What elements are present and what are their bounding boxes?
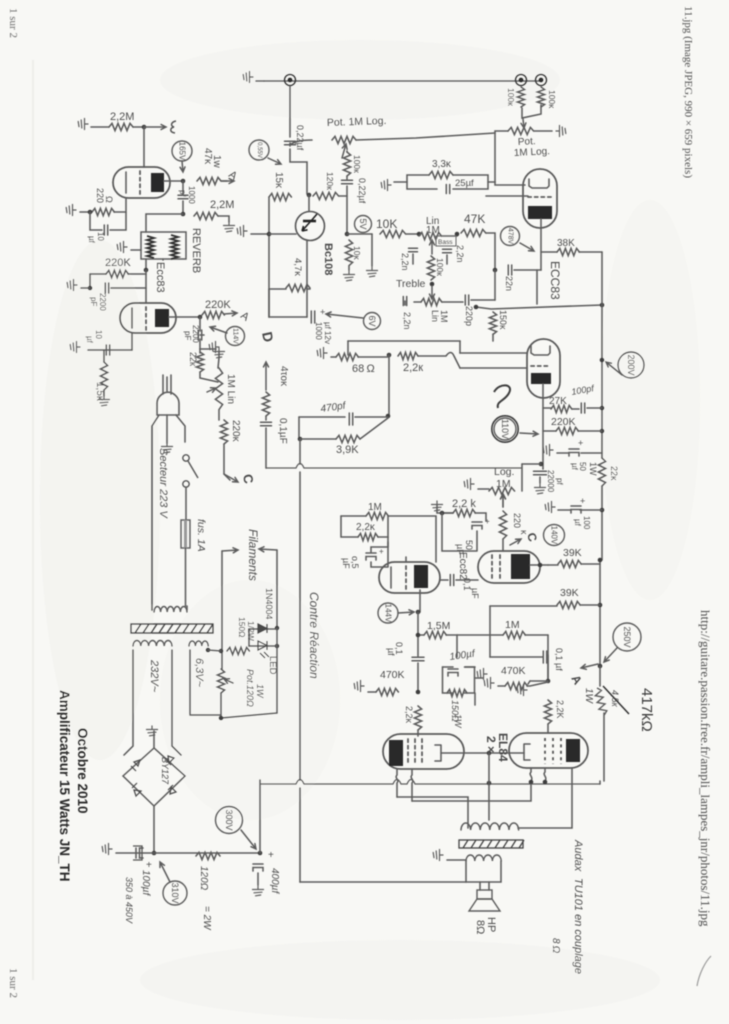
svg-text:140V: 140V — [550, 526, 559, 545]
capacitor 22n coupling — [508, 265, 511, 275]
fuse inner line — [184, 520, 187, 548]
wire gnd 2200 — [81, 287, 90, 289]
wire join to pot — [522, 105, 541, 118]
wire y468 to pot — [521, 464, 523, 491]
svg-text:300V: 300V — [224, 809, 234, 830]
tube V2b envelope — [527, 339, 560, 398]
resistor 68 ohm — [336, 353, 358, 360]
node mid coupler — [493, 268, 498, 273]
svg-text:2,2κ: 2,2κ — [404, 706, 414, 724]
wire plug earth lead — [166, 415, 168, 443]
ground 2,2k cath — [432, 501, 443, 511]
svg-text:114V: 114V — [232, 328, 239, 344]
arrow 144V — [398, 610, 414, 615]
svg-text:220K: 220K — [205, 299, 231, 311]
svg-text:100κ: 100κ — [547, 90, 557, 109]
wire V1b plate cap branch — [199, 317, 201, 331]
svg-text:Secteur 223 V: Secteur 223 V — [157, 448, 169, 519]
tube V2b grid dashes — [531, 365, 549, 367]
resistor 4,7K emitter — [286, 284, 310, 291]
arrow filament right — [259, 547, 277, 552]
svg-text:Octobre 2010: Octobre 2010 — [75, 728, 90, 814]
wiper arrow 1M Lin — [207, 388, 216, 393]
wire 3,9K ends — [300, 418, 388, 439]
input jack J3 — [536, 75, 547, 86]
wire filter rail — [116, 852, 260, 854]
wire 417k ends — [600, 666, 604, 781]
label box Bass — [436, 236, 456, 246]
wire 220K left branch — [89, 274, 91, 288]
svg-text:2200: 2200 — [98, 293, 107, 311]
svg-text:2,2к: 2,2к — [403, 362, 423, 374]
wire y341 bus — [348, 340, 460, 342]
svg-text:µF: µF — [455, 544, 465, 555]
ground mains earth — [162, 443, 173, 453]
tube V4 anode box — [511, 554, 530, 579]
wire el84 cath box top — [443, 666, 475, 668]
wire gnd 220 — [80, 211, 88, 213]
wire 470K out2 row — [528, 681, 530, 684]
ground filter cap1 — [102, 844, 112, 855]
svg-text:Pot. 1M Log.: Pot. 1M Log. — [327, 115, 387, 129]
ground 2,2M — [78, 119, 88, 130]
tube V4 ECC82 right envelope — [478, 551, 540, 583]
wire ground to rail — [251, 233, 269, 235]
wire emitter down — [306, 240, 308, 317]
resistor 470K out2 — [505, 682, 527, 689]
wire 47K right corner — [486, 233, 495, 270]
svg-text:1M Lin: 1M Lin — [225, 374, 236, 404]
tube V3 grid dashes — [405, 566, 407, 590]
ground reverb box — [117, 242, 127, 253]
resistor 39K top — [558, 560, 581, 567]
tube V2a cathode box — [528, 206, 552, 219]
arrow output A second — [224, 311, 237, 316]
wire bass pot right — [441, 235, 457, 237]
svg-text:350 à 450V: 350 à 450V — [124, 877, 134, 924]
capacitor 2200pF left — [105, 283, 108, 293]
wire 2,2n right stub — [446, 255, 448, 264]
wire 3k3 block outline — [407, 175, 488, 189]
squiggle doodle — [494, 385, 510, 408]
tube V2a plate electrode — [529, 179, 549, 188]
reverb coil right — [171, 235, 178, 259]
wire 50uF to gnd — [557, 452, 569, 454]
svg-text:417kΩ: 417kΩ — [638, 688, 655, 732]
output transformer primary winding — [461, 823, 519, 830]
ground 2200pF — [67, 280, 77, 291]
capacitor 1000uF 12V — [311, 311, 314, 323]
wire diode row — [249, 628, 277, 630]
node 150K top wire — [474, 305, 479, 310]
master wiper arrow — [501, 494, 506, 507]
resistor 220 ohm cathode — [92, 208, 114, 215]
mains plug pin earth — [166, 377, 168, 391]
svg-text:0,22µf: 0,22µf — [295, 125, 305, 151]
arrow output A first — [222, 179, 234, 184]
svg-text:2 ×: 2 × — [484, 736, 498, 753]
top ground bus wire — [264, 80, 541, 82]
svg-text:Ω: Ω — [104, 196, 114, 203]
resistor 10K horizontal — [380, 230, 406, 237]
capacitor 1000pF reverb — [178, 195, 188, 198]
ground speaker — [433, 850, 443, 861]
wire 220 ends — [88, 211, 126, 213]
capacitor 100uF el84 — [448, 669, 458, 676]
resistor 3,3k — [429, 171, 453, 178]
treble wiper arrow — [430, 286, 435, 299]
svg-text:1M: 1M — [439, 310, 449, 323]
svg-text:220: 220 — [95, 188, 105, 203]
wire pot left down — [495, 131, 508, 182]
wire 27K to cap — [543, 408, 579, 409]
wire master gnd stub — [478, 488, 489, 490]
svg-text:Treble: Treble — [396, 278, 426, 290]
wire sec left long — [300, 881, 466, 883]
arrow 478V — [520, 243, 534, 251]
potentiometer 120 ohm hum — [217, 669, 224, 693]
wire 68 to 2,2k — [358, 355, 389, 357]
node hum bottom — [219, 716, 224, 721]
svg-text:144V: 144V — [384, 604, 393, 623]
wire 2,2k gnd stub — [437, 505, 453, 513]
resistor 220K master — [499, 511, 506, 539]
node 470K out1 — [416, 690, 421, 695]
svg-text:1W: 1W — [583, 688, 594, 705]
transformer HT secondary winding — [133, 640, 172, 646]
node E junction — [142, 125, 147, 130]
wire pot right to ground — [534, 130, 552, 132]
tube V1a grid dashes — [139, 171, 141, 194]
node reverb drive — [181, 212, 186, 217]
wire gnd to block — [394, 181, 407, 183]
resistor 47K 1W — [197, 177, 221, 184]
wire g1 left to tube — [417, 730, 419, 736]
wire HT left down — [124, 650, 133, 755]
LED symbol — [258, 641, 269, 658]
svg-text:BY127: BY127 — [160, 757, 170, 785]
wire to tube grid2 — [486, 195, 528, 197]
svg-text:+: + — [580, 496, 585, 506]
tube V3 ECC82 left envelope — [379, 562, 440, 593]
capacitor 100uF decoupler — [571, 506, 581, 513]
tube V3 cathode electrode — [390, 567, 392, 588]
svg-text:pf: pf — [555, 478, 564, 485]
svg-text:165V: 165V — [178, 142, 187, 161]
wire x548 node left — [530, 680, 548, 682]
resistor 150K — [489, 312, 496, 334]
voltage circle 478V — [501, 227, 520, 246]
switch lever — [188, 461, 198, 478]
ground 1,5K bottom — [99, 396, 110, 406]
arrow hum pot wiper — [224, 679, 233, 684]
input jack J2 — [516, 75, 527, 86]
wire reverb out — [146, 259, 163, 270]
resistor 22k hang — [196, 352, 203, 372]
wire treble left — [405, 301, 421, 305]
svg-text:4,7κ: 4,7κ — [292, 258, 303, 276]
node y464 junction — [539, 462, 544, 467]
resistor 2,2K g1 right — [544, 700, 551, 724]
capacitor 0,1uF D — [261, 422, 272, 425]
tube V2b plate electrode — [531, 346, 550, 355]
voltage circle 300V — [216, 807, 243, 834]
wire 220K ends — [543, 430, 602, 432]
wire el84 gnd stub — [475, 677, 483, 679]
node collector top — [307, 193, 312, 198]
wire node to reverb box — [146, 214, 183, 232]
node rail A — [598, 664, 603, 669]
wire bridge bottom down — [153, 806, 155, 853]
wire 220K C down — [224, 444, 230, 480]
svg-text:C: C — [240, 473, 257, 485]
capacitor 22000pF — [534, 471, 547, 474]
svg-text:250V: 250V — [622, 626, 632, 647]
wire primary ends down — [186, 606, 188, 610]
capacitor 220p — [465, 295, 468, 305]
wire gnd to 2,2M — [91, 126, 109, 128]
svg-text:µf 12v: µf 12v — [323, 322, 332, 344]
capacitor 50uF splitter — [472, 522, 482, 529]
wire 1,5K top — [103, 350, 105, 396]
wire 470p left — [299, 416, 388, 418]
node rail 39K-2 — [598, 603, 603, 608]
wire 2,2k cath left — [442, 513, 486, 521]
node fil right diode — [275, 626, 280, 631]
transistor Q1 BC108 — [296, 212, 325, 241]
ground V1b out — [209, 342, 219, 353]
capacitor 10uF V1a — [104, 225, 107, 235]
wire 2,2k box — [341, 516, 388, 537]
svg-text:100к: 100к — [435, 258, 445, 276]
svg-text:8 Ω: 8 Ω — [550, 938, 561, 954]
capacitor 100uF reservoir — [136, 848, 143, 858]
svg-text:68 Ω: 68 Ω — [352, 363, 375, 375]
tube EL84 left anode box — [389, 740, 403, 766]
wire 4k7 left — [269, 288, 286, 290]
arrow 114V — [210, 326, 227, 333]
wire sec loop — [466, 861, 501, 882]
wire 2,2k to grid — [418, 353, 460, 369]
svg-text:+: + — [578, 438, 583, 448]
svg-text:1 sur 2: 1 sur 2 — [7, 8, 19, 38]
resistor 47K — [461, 229, 486, 236]
resistor 2,2M top — [109, 123, 133, 130]
wire bridge top to gnd — [153, 731, 155, 748]
resistor 100K bass — [427, 256, 434, 280]
wire fuse to primary — [185, 548, 187, 606]
wire 4k7 right to emitter — [307, 288, 310, 290]
svg-text:µf: µf — [85, 336, 94, 344]
mains plug pin left — [162, 375, 164, 394]
tube V1b grid dashes — [145, 307, 147, 330]
wire HT right down — [172, 650, 181, 755]
arrow 0,55V to wire — [268, 158, 281, 164]
wire V2b grid — [460, 367, 527, 369]
potentiometer Log 1M master — [489, 487, 515, 494]
svg-text:1 sur 2: 1 sur 2 — [7, 968, 19, 998]
svg-text:2,2 k: 2,2 k — [452, 498, 476, 510]
svg-text:µf: µf — [570, 463, 579, 471]
svg-text:478V: 478V — [507, 228, 514, 245]
voltage circle 200V — [618, 352, 644, 378]
arrow 165V to plate — [180, 161, 185, 172]
wire diode loop vertical — [248, 629, 250, 646]
wire 1M box — [341, 516, 436, 562]
cap 100uF box — [133, 846, 142, 860]
wire right plate down — [518, 768, 572, 828]
wire hum pot bottom — [220, 693, 222, 718]
ground 2,2M second — [224, 222, 235, 232]
svg-text:µf: µf — [573, 519, 582, 527]
feedback wire vertical — [299, 439, 301, 882]
arrow C in — [510, 539, 521, 545]
node pin right b — [543, 780, 548, 785]
wire V1b cath left — [88, 349, 132, 351]
svg-text:22к: 22к — [188, 352, 198, 366]
node V1a plate — [181, 179, 186, 184]
transformer primary winding — [154, 607, 187, 613]
wire 2200 to grid rail — [111, 287, 146, 289]
svg-text:1N4004: 1N4004 — [264, 588, 274, 620]
svg-text:2,2M: 2,2M — [110, 111, 134, 123]
voltage circle 5V — [355, 216, 372, 233]
ground bridge top — [147, 726, 158, 736]
node filter second — [258, 851, 263, 856]
resistor 150 ohm filament — [227, 647, 249, 654]
ground el84 second — [517, 685, 527, 696]
wire 50uF down — [442, 513, 477, 551]
potentiometer 1M Lin — [215, 368, 222, 410]
wire 10K to ground — [349, 234, 372, 270]
pencil swoosh bottom right — [697, 956, 711, 986]
resistor 120k collector — [313, 192, 339, 199]
potentiometer 1M Log left — [332, 136, 356, 143]
ground 3k3 block — [381, 180, 391, 191]
el84 right dashes — [545, 738, 561, 764]
wire y657 to cap — [490, 656, 543, 658]
resistor 1M input right — [537, 87, 544, 107]
svg-text:2,2n: 2,2n — [455, 245, 465, 263]
left EL84 pin b — [411, 769, 413, 801]
wire 220K reverb ends — [90, 273, 146, 275]
node 220 left — [88, 210, 93, 215]
wire 150K top — [476, 305, 602, 309]
resistor 39K bottom — [557, 601, 580, 608]
wire screen bus right — [489, 752, 524, 754]
letter E script — [171, 121, 176, 133]
node V1b plate — [198, 315, 203, 320]
wire rail right end — [599, 781, 601, 784]
arrow 6V to node — [326, 312, 363, 318]
arrow C out — [224, 474, 238, 482]
wire out node down — [199, 339, 201, 349]
wire filament rail left — [221, 551, 223, 669]
svg-text:1W: 1W — [453, 714, 463, 729]
svg-text:220: 220 — [512, 513, 522, 528]
tube EL84 right anode box — [566, 739, 580, 762]
resistor 2,2K splitter cath — [453, 509, 475, 516]
svg-text:Lin: Lin — [430, 310, 440, 322]
svg-text:1/2W: 1/2W — [246, 621, 256, 641]
svg-text:1w: 1w — [211, 155, 222, 169]
svg-text:Pot.120Ω: Pot.120Ω — [245, 669, 255, 707]
wire D cap down corner — [265, 428, 267, 468]
arrow 200V to rail — [606, 362, 622, 375]
svg-text:22000: 22000 — [546, 470, 555, 493]
node tone in — [417, 232, 422, 237]
voltage circle 250V — [613, 623, 641, 651]
wire V4 plate out — [530, 564, 548, 566]
wire 470K out1 gnd — [368, 691, 376, 693]
node x548 cap — [546, 679, 551, 684]
svg-text:Ecc83: Ecc83 — [154, 262, 166, 293]
svg-text:TU101 en couplage: TU101 en couplage — [572, 878, 584, 974]
tube V1b anode box — [155, 309, 169, 327]
wire 120k to chain — [339, 195, 347, 197]
wire to tube grid — [495, 182, 525, 185]
wire C1 out to pot — [290, 140, 312, 146]
svg-text:Bc108: Bc108 — [322, 243, 334, 275]
resistor 470K out1 — [376, 688, 398, 695]
resistor 10K vertical — [345, 240, 352, 266]
tube EL84 right envelope — [509, 733, 588, 768]
svg-text:2,2n: 2,2n — [400, 253, 410, 271]
capacitor 2,2n left — [409, 248, 418, 251]
voltage circle 165V — [172, 141, 192, 161]
B+ rail lower — [600, 486, 602, 666]
svg-text:220κ: 220κ — [230, 420, 241, 443]
input jack J1 — [285, 75, 296, 86]
voltage circle 0,55V — [249, 140, 269, 160]
wire right rail to bottom — [276, 628, 278, 713]
svg-text:3,3κ: 3,3κ — [432, 159, 452, 170]
wire cap to 2,2M node — [182, 201, 184, 214]
node filter first — [152, 851, 157, 856]
B+ rail right — [601, 252, 603, 458]
svg-text:2,2n: 2,2n — [402, 312, 412, 330]
resistor 2,2M second — [194, 212, 218, 219]
svg-text:470pf: 470pf — [320, 400, 348, 415]
wire V1a cathode down — [125, 198, 127, 211]
svg-text:Amplificateur 15 Watts JN_TH: Amplificateur 15 Watts JN_TH — [57, 690, 72, 882]
node rail 39K-1 — [598, 558, 603, 563]
resistor 120 ohm 2W — [196, 852, 220, 859]
wire 1MLin to 220K — [218, 410, 220, 420]
svg-text:+: + — [320, 307, 325, 317]
resistor 220K C branch — [220, 420, 227, 444]
svg-text:5V: 5V — [358, 218, 368, 229]
wire 39K top ends — [548, 564, 600, 565]
wire 2200 out to 22k — [200, 334, 204, 336]
svg-text:D: D — [259, 330, 277, 343]
svg-text:10κ: 10κ — [352, 246, 362, 260]
wire grid entry V3 — [405, 557, 407, 562]
tube V1a cathode electrode — [125, 172, 127, 193]
svg-text:1M: 1M — [505, 619, 520, 631]
arrow to E — [144, 125, 166, 130]
resistor 470K D branch — [262, 392, 269, 416]
wire cap 05 wires — [371, 542, 388, 567]
svg-text:100µf: 100µf — [140, 870, 151, 896]
capacitor 100pF — [581, 403, 584, 413]
resistor 100K wiper — [343, 152, 350, 176]
svg-text:1000: 1000 — [187, 186, 196, 204]
svg-text:220K: 220K — [105, 257, 131, 269]
resistor 15K — [269, 193, 291, 200]
node 47K left — [455, 232, 460, 237]
right EL84 pin a — [530, 768, 532, 781]
